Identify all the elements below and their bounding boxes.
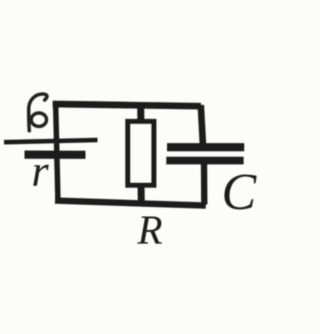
wire left vertical through battery (56, 102, 58, 203)
wire right vertical capacitor top lead (201, 105, 203, 144)
resistor R box (128, 122, 154, 186)
svg-text:C: C (222, 164, 258, 221)
capacitor C top plate (167, 143, 244, 151)
wire resistor bottom stub (138, 184, 145, 204)
wire right vertical capacitor bottom lead (201, 162, 208, 205)
battery negative plate (short thick) (25, 151, 86, 159)
svg-text:R: R (137, 206, 163, 252)
wire bottom horizontal (55, 201, 206, 206)
capacitor C bottom plate (166, 157, 243, 165)
battery positive plate (long thin) (4, 140, 98, 142)
label EMF script E (29, 94, 47, 131)
wire top horizontal (53, 104, 201, 106)
svg-text:r: r (32, 146, 50, 195)
wire resistor top stub (137, 105, 144, 123)
